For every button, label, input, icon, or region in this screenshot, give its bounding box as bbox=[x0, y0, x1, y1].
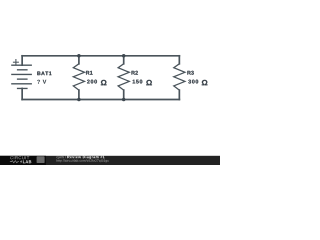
wire R1 bottom stub bbox=[78, 90, 80, 99]
battery BAT1 plates bbox=[11, 65, 32, 88]
resistor R2 bbox=[118, 64, 129, 90]
wire R3 top stub bbox=[178, 56, 180, 64]
wire R3 bottom stub bbox=[178, 90, 180, 99]
logo CIRCUIT text bbox=[10, 156, 29, 159]
wire battery bottom stub bbox=[21, 88, 23, 99]
junction node R2 top bbox=[122, 54, 126, 58]
junction node R1 top bbox=[77, 54, 81, 58]
junction node R2 bottom bbox=[122, 98, 126, 102]
resistor R1 bbox=[73, 64, 84, 90]
junction node R1 bottom bbox=[77, 98, 81, 102]
resistor R3 bbox=[174, 64, 185, 90]
value label 150 bbox=[133, 80, 143, 84]
wire bottom rail bbox=[22, 99, 179, 101]
footer bar bbox=[0, 156, 220, 165]
value label Ohm R1 bbox=[101, 80, 107, 85]
logo LAB text bbox=[23, 160, 31, 163]
battery plus sign bbox=[13, 59, 19, 65]
wire R2 top stub bbox=[123, 56, 125, 64]
logo gray box bbox=[37, 156, 45, 163]
footer line 1 title bbox=[67, 156, 104, 160]
footer line 1 username bbox=[57, 156, 67, 160]
label R1 bbox=[86, 71, 93, 75]
wire R2 bottom stub bbox=[123, 90, 125, 99]
value label Ohm R2 bbox=[146, 80, 152, 85]
logo wire zigzag bbox=[10, 161, 19, 163]
label R2 bbox=[132, 71, 138, 75]
value label 300 bbox=[188, 80, 198, 84]
label R3 bbox=[187, 71, 193, 75]
wire top rail bbox=[22, 55, 179, 57]
value label Ohm R3 bbox=[202, 80, 208, 85]
footer line 2 url bbox=[57, 159, 109, 162]
logo lightning bolt bbox=[20, 160, 22, 164]
value label ? V bbox=[37, 80, 46, 84]
footer logo block bbox=[0, 156, 46, 165]
value label 200 bbox=[87, 80, 97, 84]
wire R1 top stub bbox=[78, 56, 80, 64]
label BAT1 bbox=[37, 72, 51, 76]
wire battery top stub bbox=[21, 56, 23, 65]
